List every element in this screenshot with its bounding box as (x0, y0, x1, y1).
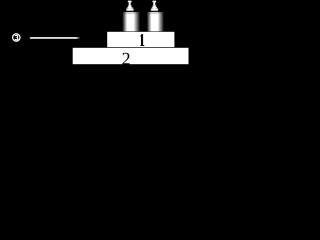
sprayer bottle A (122, 1, 139, 32)
tray 2 (73, 48, 189, 64)
sprayer B pump base skirt (151, 9, 158, 12)
sprayer B pump step (153, 5, 157, 7)
sprayer A pump stem (129, 2, 131, 5)
sprayer A body (122, 13, 139, 31)
sprayer A pump base (126, 8, 134, 10)
sprayer A pump base skirt (126, 9, 133, 12)
sprayer B pump cap (152, 1, 156, 3)
sprayer A pump step (128, 5, 132, 7)
sprayer bottle B (147, 1, 164, 32)
sprayer A pump cap (128, 1, 132, 3)
sprayer B body top rim (147, 12, 164, 13)
sprayer A pump collar (127, 7, 133, 8)
label 1 (140, 34, 144, 46)
label 2 (122, 53, 129, 65)
sprayer B body (147, 13, 164, 31)
sprayer B pump stem (153, 2, 155, 5)
sprayer B pump collar (152, 7, 158, 8)
tray 1 (107, 32, 174, 47)
callout circled 3 (13, 34, 20, 41)
sprayer A body top rim (122, 12, 139, 13)
sprayer B pump base (151, 8, 159, 10)
leader line (30, 37, 80, 39)
